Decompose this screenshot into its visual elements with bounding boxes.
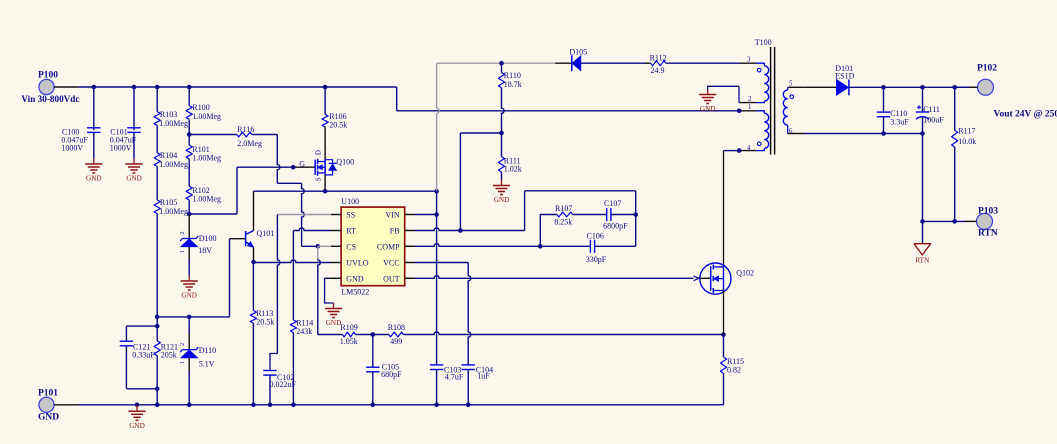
junctions bottom rail — [135, 403, 471, 408]
wire Q102 drain — [723, 151, 725, 267]
svg-text:R105: R105 — [160, 198, 177, 207]
resistor R101 1.00Meg — [186, 145, 221, 163]
svg-text:P101: P101 — [38, 388, 58, 398]
svg-text:G: G — [299, 160, 305, 169]
wire — [501, 63, 503, 72]
svg-text:U100: U100 — [341, 197, 359, 206]
wire — [954, 87, 956, 130]
svg-text:R117: R117 — [958, 126, 975, 135]
svg-text:243k: 243k — [296, 327, 312, 336]
wire — [236, 167, 238, 214]
transistor Q101 — [246, 229, 275, 247]
resistor R109 1.05k — [340, 323, 358, 346]
resistor R114 243k — [290, 319, 313, 336]
wire to Q101 base — [229, 239, 231, 317]
wire — [555, 62, 571, 64]
wire CS down — [318, 246, 321, 334]
svg-text:D100: D100 — [199, 234, 217, 243]
svg-text:1.00Meg: 1.00Meg — [159, 207, 188, 216]
svg-text:P100: P100 — [38, 71, 58, 81]
svg-text:1.05k: 1.05k — [340, 337, 358, 346]
capacitor C105 680pF — [366, 362, 402, 379]
svg-text:0.33uF: 0.33uF — [132, 350, 155, 359]
svg-text:1.02k: 1.02k — [504, 164, 522, 173]
wire Q100 source — [324, 175, 326, 191]
svg-text:10.0k: 10.0k — [958, 137, 976, 146]
port P100 Vin 30-800Vdc — [21, 71, 79, 105]
svg-text:GND: GND — [181, 292, 197, 300]
svg-text:1.00Meg: 1.00Meg — [192, 112, 221, 121]
wire FB tap up — [459, 133, 461, 231]
wire — [188, 358, 190, 405]
wire — [156, 125, 158, 152]
svg-text:S: S — [314, 177, 322, 181]
wire — [252, 323, 254, 405]
svg-text:2: 2 — [179, 231, 186, 234]
svg-text:R108: R108 — [388, 323, 405, 332]
svg-text:VIN: VIN — [385, 211, 399, 220]
wire — [324, 87, 326, 114]
wire — [524, 191, 526, 231]
mosfet Q102 — [700, 263, 754, 294]
svg-text:0.022uF: 0.022uF — [270, 380, 297, 389]
svg-text:2: 2 — [179, 343, 186, 346]
svg-text:Q100: Q100 — [336, 158, 354, 167]
svg-text:680pF: 680pF — [381, 370, 402, 379]
ground GND T100 pin2 — [699, 89, 716, 113]
svg-text:R116: R116 — [237, 125, 254, 134]
wire — [189, 213, 237, 215]
resistor R104 1.00Meg — [154, 151, 188, 169]
wire FB row — [415, 228, 525, 233]
wire RT to R114 — [292, 231, 294, 321]
wire R116 drop (hops gate wire) — [277, 135, 280, 184]
wire Q101 base — [230, 238, 246, 240]
capacitor C106 330pF — [586, 232, 607, 264]
diode D101 ES1D — [835, 64, 854, 95]
svg-text:1: 1 — [179, 250, 186, 253]
svg-text:R100: R100 — [192, 103, 209, 112]
capacitor C103 4.7uF — [430, 365, 464, 382]
capacitor C110 3.3uF — [877, 109, 910, 126]
diode D105 — [569, 48, 587, 72]
svg-text:RTN: RTN — [978, 229, 998, 239]
wire snubber drop (gray) — [437, 63, 440, 191]
svg-text:24.9: 24.9 — [651, 66, 665, 75]
wire — [188, 247, 190, 276]
wire VCC down — [468, 263, 471, 365]
wire T100 pin2 to gnd — [708, 86, 740, 102]
svg-text:GND: GND — [126, 175, 142, 183]
wire — [269, 375, 271, 405]
wire — [723, 373, 725, 405]
wire — [372, 372, 374, 405]
svg-text:D110: D110 — [199, 346, 216, 355]
svg-text:R106: R106 — [329, 112, 346, 121]
svg-text:R104: R104 — [160, 151, 177, 160]
wire + node — [355, 332, 388, 337]
wire — [188, 87, 190, 106]
wire (hops pin1 row) — [502, 88, 505, 133]
port P102 Vout — [977, 63, 1057, 119]
svg-text:20.5k: 20.5k — [256, 317, 274, 326]
svg-text:OUT: OUT — [383, 274, 400, 283]
wire — [133, 132, 135, 158]
svg-text:1.00Meg: 1.00Meg — [192, 154, 221, 163]
wire U100 gnd — [325, 278, 334, 303]
wire R116 left — [189, 134, 237, 136]
svg-text:499: 499 — [390, 337, 402, 346]
wire — [156, 87, 158, 112]
wire node row 317 — [155, 315, 230, 320]
ground GND U100 — [325, 303, 342, 327]
wire — [318, 334, 343, 336]
wire — [540, 245, 590, 247]
wire COMP row — [415, 244, 543, 249]
svg-text:GND: GND — [326, 319, 342, 327]
wire — [804, 86, 836, 88]
wire — [581, 62, 651, 64]
wire — [954, 147, 956, 221]
resistor R108 499 — [388, 323, 405, 346]
resistor R121 205k — [154, 341, 178, 359]
wire VCC — [415, 262, 469, 264]
svg-text:3: 3 — [747, 56, 751, 63]
svg-text:GND: GND — [346, 274, 364, 283]
svg-text:VCC: VCC — [383, 259, 399, 268]
svg-text:COMP: COMP — [377, 242, 400, 251]
port P101 GND — [38, 388, 59, 422]
wire SS to C102 — [270, 215, 280, 371]
wire Vin top rail — [54, 86, 397, 88]
op-amp U100 LM5022 — [331, 197, 415, 296]
svg-text:LM5022: LM5022 — [341, 288, 369, 297]
wire — [277, 182, 301, 184]
svg-text:R112: R112 — [650, 54, 667, 63]
svg-text:R109: R109 — [340, 323, 357, 332]
wire pin4 row — [724, 150, 740, 152]
wire — [133, 87, 135, 130]
svg-text:20.5k: 20.5k — [329, 121, 347, 130]
svg-text:205k: 205k — [161, 350, 177, 359]
svg-text:FB: FB — [390, 227, 400, 236]
svg-text:GND: GND — [700, 105, 716, 113]
wire FB loop right — [633, 191, 638, 247]
wire UVLO row — [254, 260, 332, 263]
wire SS (gray) — [277, 214, 331, 216]
wire + Q101 collector — [246, 191, 254, 234]
capacitor C104 1uF — [462, 365, 494, 380]
wire — [292, 333, 294, 405]
svg-text:R110: R110 — [504, 71, 521, 80]
svg-text:R103: R103 — [160, 110, 177, 119]
svg-text:P102: P102 — [977, 63, 997, 73]
svg-text:2.0Meg: 2.0Meg — [237, 139, 262, 148]
resistor R103 1.00Meg — [154, 110, 188, 128]
wire — [372, 335, 374, 368]
wire — [595, 245, 636, 247]
wire FB loop top — [525, 190, 636, 192]
wire — [436, 370, 438, 405]
ground GND D100 — [181, 276, 198, 300]
svg-text:C111: C111 — [923, 105, 940, 114]
svg-text:2: 2 — [748, 96, 752, 103]
wire — [922, 87, 924, 112]
wire source row — [254, 189, 439, 194]
capacitor C107 6800pF — [603, 199, 628, 230]
RTN power symbol — [914, 244, 931, 265]
wire OUT row — [415, 276, 694, 279]
resistor R100 1.00Meg — [186, 103, 221, 121]
wire — [501, 133, 503, 157]
svg-text:C107: C107 — [604, 199, 621, 208]
svg-text:330pF: 330pF — [586, 255, 607, 264]
svg-text:GND: GND — [129, 422, 145, 430]
wire — [883, 87, 885, 112]
wire RT row (hops) — [293, 228, 331, 231]
wire Q102 source — [723, 291, 725, 335]
wire + node R116 tap — [187, 119, 192, 145]
wire to Q100 gate — [237, 165, 315, 170]
wire C121 top — [126, 324, 159, 341]
wire Vin rail drop — [396, 87, 398, 111]
wire — [573, 214, 607, 216]
wire — [252, 134, 277, 136]
wire C111 down — [922, 118, 924, 222]
wire — [501, 172, 503, 180]
wire to P102 — [955, 86, 978, 88]
svg-text:SS: SS — [346, 211, 355, 220]
ground GND bottom rail — [128, 405, 145, 430]
wire + node D100 top — [187, 200, 192, 238]
resistor R111 1.02k — [498, 156, 521, 173]
resistor R113 20.5k — [250, 309, 274, 326]
resistor R106 20.5k — [322, 112, 347, 130]
junctions on Vin rail — [92, 85, 328, 90]
svg-text:T100: T100 — [755, 38, 772, 47]
wire — [188, 317, 190, 349]
svg-text:4.7uF: 4.7uF — [445, 373, 464, 382]
svg-text:Vin 30-800Vdc: Vin 30-800Vdc — [21, 94, 79, 104]
wire — [467, 370, 469, 405]
wire — [883, 117, 885, 134]
svg-text:Q102: Q102 — [736, 268, 754, 277]
svg-text:1.00Meg: 1.00Meg — [159, 119, 188, 128]
wire — [723, 335, 725, 358]
svg-text:P103: P103 — [978, 206, 998, 216]
svg-text:CS: CS — [346, 242, 356, 251]
capacitor C121 0.33uF — [120, 341, 156, 359]
resistor R115 0.82 — [720, 357, 744, 375]
svg-text:1000V: 1000V — [61, 144, 83, 153]
transformer T100 secondary winding 5-6 — [783, 81, 804, 135]
svg-text:1000V: 1000V — [110, 144, 132, 153]
svg-text:Q101: Q101 — [257, 229, 275, 238]
capacitor C111 100uF polarized — [916, 105, 944, 124]
ground GND C101 — [125, 159, 142, 183]
resistor R107 8.25k — [554, 204, 572, 227]
wire — [611, 214, 636, 216]
junction dots T100 left — [737, 109, 742, 153]
wire RTN stem — [922, 221, 924, 243]
svg-text:ES1D: ES1D — [835, 71, 854, 80]
wire to T100 pin3 — [666, 62, 756, 64]
wire to CS (hops) — [302, 183, 305, 246]
wire — [252, 262, 254, 311]
zener diode D100 18V — [179, 231, 216, 255]
wire to R110/R111 node — [460, 131, 503, 136]
resistor R117 10.0k — [952, 126, 977, 147]
svg-text:6: 6 — [789, 128, 793, 135]
gate arrow Q102 — [694, 276, 711, 281]
svg-text:6800pF: 6800pF — [603, 221, 628, 230]
resistor R112 24.9 — [650, 54, 667, 76]
wire — [93, 132, 95, 158]
svg-text:1: 1 — [748, 104, 751, 111]
wire — [156, 167, 158, 200]
wire — [93, 87, 95, 130]
port P103 RTN — [977, 206, 999, 238]
wire VIN — [415, 212, 439, 217]
resistor R110 18.7k — [498, 71, 521, 89]
svg-text:R101: R101 — [192, 145, 209, 154]
wire bottom GND rail — [54, 404, 723, 406]
svg-text:1: 1 — [179, 361, 186, 364]
mosfet Q100 — [314, 150, 354, 181]
svg-text:RTN: RTN — [915, 256, 930, 264]
transformer T100 primary winding 3-2 — [740, 56, 769, 103]
svg-text:5: 5 — [789, 81, 793, 88]
svg-text:UVLO: UVLO — [346, 259, 368, 268]
wire to T100 pin1 — [397, 110, 757, 112]
svg-text:1.00Meg: 1.00Meg — [159, 160, 188, 169]
svg-text:GND: GND — [38, 413, 59, 423]
wire C121 bottom — [126, 346, 159, 391]
svg-text:R107: R107 — [555, 204, 572, 213]
ground GND R111 — [493, 180, 510, 204]
wire pin6 row — [804, 131, 925, 136]
wire CS stub link (gray) — [318, 245, 331, 247]
label G — [299, 160, 305, 169]
wire snubber (gray) — [437, 61, 555, 66]
wire CS link — [302, 245, 318, 247]
wire RTN row — [920, 219, 976, 224]
svg-text:D105: D105 — [569, 48, 587, 57]
svg-text:D: D — [314, 150, 322, 155]
capacitor C102 0.022uF — [263, 371, 296, 390]
svg-text:4: 4 — [747, 145, 751, 152]
resistor R102 1.00Meg — [186, 186, 221, 204]
capacitor C100 — [61, 127, 100, 152]
ground GND C100 — [85, 159, 102, 183]
resistor R105 1.00Meg — [154, 198, 188, 216]
capacitor C101 — [110, 127, 141, 152]
wire VIN rail down — [436, 191, 438, 365]
wire R105 to R121 — [156, 214, 158, 341]
svg-text:Vout 24V @ 250mA: Vout 24V @ 250mA — [994, 109, 1057, 119]
wire Q100 drain — [324, 127, 326, 160]
svg-text:18V: 18V — [198, 246, 212, 255]
svg-text:18.7k: 18.7k — [504, 80, 522, 89]
wire Q101 emitter + node — [251, 247, 256, 264]
wire Vout row — [849, 85, 978, 90]
wire — [540, 215, 557, 247]
transformer T100 primary winding 1-4 — [740, 104, 769, 152]
zener diode D110 5.1V — [179, 343, 216, 369]
svg-text:C106: C106 — [587, 232, 604, 241]
svg-text:1uF: 1uF — [477, 371, 490, 380]
svg-text:GND: GND — [494, 196, 510, 204]
svg-text:RT: RT — [346, 227, 356, 236]
node CS — [316, 244, 321, 249]
wire — [188, 159, 190, 186]
svg-text:1.00Meg: 1.00Meg — [192, 195, 221, 204]
wire R108 to Q102 source — [403, 332, 725, 337]
transformer T100 core — [755, 38, 775, 154]
svg-text:3.3uF: 3.3uF — [890, 117, 909, 126]
svg-text:0.82: 0.82 — [727, 365, 741, 374]
svg-text:100uF: 100uF — [923, 116, 944, 125]
svg-text:GND: GND — [86, 175, 102, 183]
svg-text:5.1V: 5.1V — [199, 360, 215, 369]
wire — [156, 356, 158, 405]
svg-text:R102: R102 — [192, 186, 209, 195]
svg-text:8.25k: 8.25k — [554, 217, 572, 226]
resistor R116 2.0Meg — [237, 125, 262, 148]
